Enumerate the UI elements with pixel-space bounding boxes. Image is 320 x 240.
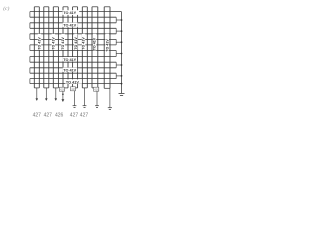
label vertical col 13/14 — [93, 34, 96, 51]
wire top bar pair 4 — [63, 6, 68, 8]
wire right bracket rows 6-7 — [115, 39, 117, 45]
wire row 1 — [30, 11, 122, 13]
wire bottom bar pair 4 — [65, 87, 68, 89]
wire column 3 — [43, 7, 45, 88]
arrowhead tap pair 3 — [55, 98, 58, 101]
ground tap pair 8 — [108, 107, 112, 109]
wire stub rows 10-11 to bus — [116, 64, 121, 66]
wire tap pair 6 — [84, 88, 86, 106]
svg-text:426: 426 — [55, 112, 64, 118]
wire right bracket rows 2-3 — [115, 17, 117, 23]
wire column 2 — [38, 7, 40, 88]
wire bottom bar pair 2 — [44, 87, 49, 89]
node dot stub rows 10-11 — [121, 64, 123, 66]
bottom numeric labels — [33, 112, 89, 118]
wire column 16 — [109, 7, 111, 89]
label box B "TO 41V" on rows 3-4 — [63, 23, 78, 28]
wire stub rows 4-5 to bus — [116, 30, 121, 32]
svg-text:427: 427 — [70, 112, 79, 118]
node dot on tap 4 wire — [62, 93, 64, 95]
wire left bracket rows 13-14 — [29, 79, 31, 84]
node dot stub rows 12-13 — [121, 75, 123, 77]
wire right bracket rows 12-13 — [115, 73, 117, 78]
wire stub rows 6-7 to bus — [116, 41, 121, 43]
svg-text:427: 427 — [44, 112, 53, 118]
label vertical col 9/10 — [74, 34, 77, 50]
node dot stub rows 8-9 — [121, 53, 123, 55]
wire column 1 — [33, 7, 35, 88]
arrowhead tap pair 4 — [62, 99, 65, 102]
vertical column labels — [38, 34, 110, 52]
junction dots on bus — [121, 19, 123, 84]
wire column 14 — [97, 7, 99, 87]
label vertical col 11 — [82, 34, 85, 50]
svg-text:427: 427 — [80, 112, 89, 118]
node dot stub rows 2-3 — [121, 19, 123, 21]
node dot stub rows 4-5 — [121, 30, 123, 32]
wire top bar pair 8 — [104, 6, 110, 8]
wire grid rows — [30, 12, 122, 84]
wire stub rows 2-3 to bus — [116, 19, 121, 21]
wire column 9 — [72, 7, 74, 87]
label box C "TO 41Y" on row 9 — [63, 57, 77, 62]
svg-text:426: 426 — [60, 88, 65, 92]
wire left bracket rows 3-4 — [29, 23, 31, 29]
wire left bracket rows 1-2 — [29, 12, 31, 18]
label vertical col 7 — [61, 34, 64, 50]
wire row 5 — [30, 33, 116, 35]
wire column 11 — [81, 7, 83, 88]
wire top bar pair 5 — [73, 6, 78, 8]
small numbered box on tap 5 — [71, 87, 77, 91]
right vertical bus wire — [121, 12, 123, 94]
wire column 13 — [91, 7, 93, 88]
ground under bus — [119, 94, 125, 96]
wire top bar pair 7 — [92, 6, 98, 8]
svg-text:426: 426 — [94, 88, 99, 92]
wire column 5 — [52, 7, 54, 88]
wire tap pair 5 — [74, 91, 76, 106]
top hairpin bars connecting column pairs — [34, 6, 110, 8]
svg-text:TO 41V: TO 41V — [38, 37, 42, 50]
svg-text:TO 41V: TO 41V — [74, 37, 78, 50]
node dot row 14 junction — [121, 83, 123, 85]
label box A "TO 41Y" on rows 1-2 — [63, 10, 80, 15]
wire row 10 — [30, 61, 116, 63]
wire row 14 — [30, 83, 122, 85]
label vertical col 15/16 — [105, 34, 109, 52]
wire column 12 — [86, 7, 88, 88]
ground tap pair 7 — [95, 105, 99, 107]
bottom taps with arrowheads (pairs 1-4) — [37, 88, 63, 100]
wire row 6 — [30, 38, 116, 40]
ground tap pair 5 — [73, 105, 77, 107]
wire top bar pair 3 — [53, 6, 58, 8]
svg-text:426: 426 — [71, 87, 76, 91]
svg-text:TO 41V: TO 41V — [63, 24, 76, 28]
wire column 4 — [48, 7, 50, 88]
bottom hairpin bars connecting column pairs — [34, 87, 110, 89]
wire column 15 — [103, 7, 105, 89]
wire bottom bar pair 6 — [82, 87, 87, 89]
wire row 13 — [30, 78, 116, 80]
wire column 8 — [67, 7, 69, 88]
wire tap pair 4 — [62, 91, 64, 99]
node dot stub rows 6-7 — [121, 41, 123, 43]
right serpentine brackets with stubs to bus — [116, 17, 121, 78]
wire tap pair 7 — [96, 91, 98, 105]
wire tap pair 8 — [109, 88, 111, 107]
wire right bracket rows 4-5 — [115, 28, 117, 34]
svg-text:427: 427 — [33, 112, 42, 118]
wire row 11 — [30, 67, 116, 69]
wire left bracket rows 11-12 — [29, 68, 31, 73]
wire bottom bar pair 8 — [104, 87, 110, 89]
small numbered box on tap 4 — [59, 87, 65, 91]
svg-text:TO 41V: TO 41V — [51, 37, 55, 50]
wire bottom bar pair 5 — [76, 87, 78, 89]
svg-text:TO 41V: TO 41V — [82, 37, 86, 50]
wire column 10 — [77, 7, 79, 88]
wire bottom bar pair 7 — [92, 87, 94, 89]
wire row 3 — [30, 22, 116, 24]
ground tap pair 6 — [83, 105, 87, 107]
wire column 6 — [57, 7, 59, 88]
svg-text:TO 41V: TO 41V — [105, 39, 109, 52]
label box D "TO 41V" on rows 13-14 — [65, 79, 82, 84]
wire bottom bar pair 3 — [53, 87, 58, 89]
wire row 8 — [30, 50, 116, 52]
wire column 7 — [62, 7, 64, 87]
wire top bar pair 6 — [82, 6, 87, 8]
bottom taps with grounds (pairs 5-8) — [75, 88, 110, 108]
svg-text:TO 41Y: TO 41Y — [63, 11, 76, 15]
wire row 7 — [30, 44, 116, 46]
wire tap pair 2 — [45, 88, 47, 99]
wire right bracket rows 8-9 — [115, 51, 117, 57]
label box E "TO 41V" on row 11 — [63, 68, 78, 73]
wire stub rows 12-13 to bus — [116, 75, 121, 77]
wire row 9 — [30, 56, 116, 58]
wire tap pair 3 — [55, 88, 57, 99]
label vertical col 5 — [52, 34, 55, 50]
small numbered box on tap 7 — [94, 87, 100, 91]
wire left bracket rows 5-6 — [29, 34, 31, 40]
wire top bar pair 2 — [44, 6, 49, 8]
wire grid columns — [34, 7, 110, 89]
wire left bracket rows 9-10 — [29, 57, 31, 63]
wire top bar pair 1 — [34, 6, 39, 8]
arrowhead tap pair 1 — [36, 98, 39, 101]
svg-text:TO 41V: TO 41V — [61, 37, 65, 50]
svg-text:TO 41V: TO 41V — [66, 80, 79, 84]
wire row 4 — [30, 27, 116, 29]
wire left bracket rows 7-8 — [29, 45, 31, 51]
svg-text:TO 41V: TO 41V — [93, 37, 97, 50]
wire row 2 — [30, 16, 116, 18]
left serpentine brackets — [29, 12, 31, 84]
svg-text:(c): (c) — [3, 5, 9, 12]
wire stub rows 8-9 to bus — [116, 53, 121, 55]
label vertical col 2 — [38, 34, 41, 50]
svg-text:TO 41Y: TO 41Y — [63, 58, 76, 62]
wire right bracket rows 10-11 — [115, 62, 117, 68]
wire bottom bar pair 1 — [34, 87, 39, 89]
arrowhead tap pair 2 — [45, 98, 48, 101]
wire row 12 — [30, 72, 116, 74]
svg-text:TO 41V: TO 41V — [63, 69, 76, 73]
wire tap pair 1 — [36, 88, 38, 99]
